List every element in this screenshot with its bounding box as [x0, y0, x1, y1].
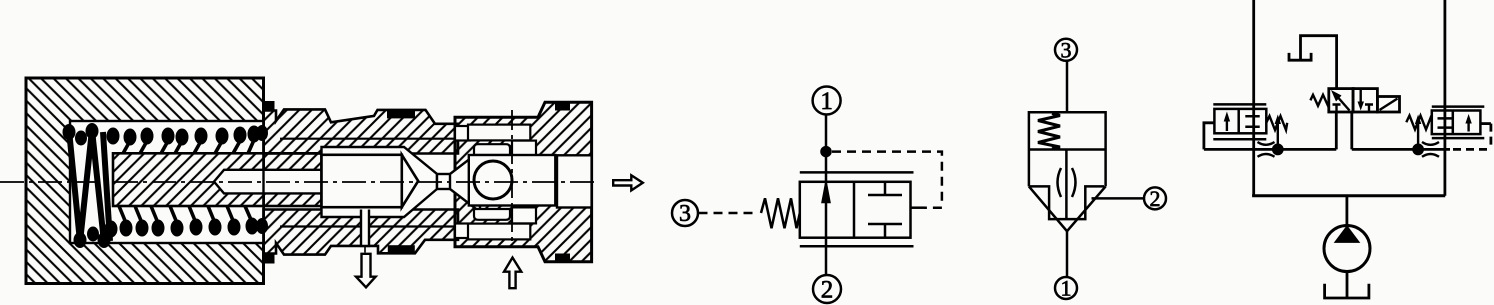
- directional valve boxes: [1329, 89, 1353, 112]
- spool (spring guide): [113, 153, 322, 206]
- sleeve bore steps: [280, 139, 458, 227]
- valve R spring: [1406, 116, 1432, 130]
- port 1 line: [1066, 231, 1069, 277]
- port 2 circle: [813, 275, 841, 303]
- port 3 circle: [672, 200, 698, 226]
- sleeve upper slab: [264, 109, 459, 153]
- port 3 line: [1066, 61, 1069, 112]
- spring wire diagonals: [119, 140, 254, 223]
- poppet chamber: [322, 147, 438, 217]
- valve L check arrow: [1226, 116, 1228, 131]
- left pilot rail wire: [1204, 148, 1336, 151]
- funnel: [1029, 186, 1106, 231]
- left bus wire: [1252, 0, 1255, 196]
- outlet fitting: [455, 102, 592, 261]
- valve R node: [1414, 145, 1423, 154]
- piston symbol: [868, 182, 902, 238]
- svg-text:2: 2: [821, 277, 834, 304]
- ball seat cone: [450, 151, 480, 212]
- valve body box: [800, 182, 911, 238]
- spool bore slot: [214, 170, 322, 194]
- poppet: [322, 155, 402, 207]
- valve L piston: [1245, 116, 1259, 127]
- port 1 line: [825, 115, 828, 275]
- valve R check arrow: [1467, 118, 1469, 132]
- port pocket bottom: [468, 224, 530, 240]
- seal rings: [262, 101, 570, 264]
- centerline main: [0, 181, 599, 183]
- divider: [1029, 148, 1106, 151]
- valve spring: [1310, 95, 1328, 106]
- pump circle: [1324, 226, 1370, 272]
- box2 blocked port: [1365, 105, 1373, 113]
- valve body block: [26, 78, 264, 284]
- drain tank: [1289, 53, 1311, 60]
- ball chamber: [469, 155, 556, 206]
- seat throat: [437, 174, 452, 189]
- svg-text:1: 1: [820, 88, 833, 115]
- cage plateau bottom: [474, 209, 510, 220]
- valve R piston: [1438, 118, 1453, 127]
- spring vertical: [1038, 114, 1060, 149]
- valve L node: [1273, 145, 1282, 154]
- port 1 circle: [813, 87, 841, 115]
- poppet center line: [1065, 150, 1068, 220]
- pump triangle: [1337, 228, 1358, 242]
- spring end coil: [69, 130, 110, 242]
- cartridge valve R box: [1432, 111, 1481, 135]
- cage plateau top: [474, 144, 510, 155]
- pump tank: [1325, 284, 1369, 298]
- sleeve lower slab: [264, 210, 459, 255]
- port pocket top: [468, 125, 530, 141]
- cartridge valve L box: [1214, 109, 1266, 133]
- port 2 circle: [1144, 187, 1166, 209]
- centerline vertical port: [511, 110, 513, 248]
- spring top coils: [63, 123, 269, 146]
- valve R pilot dashed: [1490, 124, 1493, 150]
- valve R sense arrow: [1417, 121, 1419, 149]
- valve L throttle: [1258, 142, 1275, 157]
- check arrow head: [823, 184, 830, 202]
- right bus wire: [1444, 0, 1447, 196]
- box1 arrow: [1335, 94, 1350, 111]
- valve L spring: [1266, 116, 1287, 130]
- port 3 circle: [1055, 39, 1077, 61]
- actuator box: [1377, 97, 1399, 113]
- cartridge valve L rails: [1213, 104, 1266, 139]
- fitting counterbore gaps: [455, 126, 470, 141]
- svg-text:3: 3: [679, 201, 691, 227]
- svg-text:3: 3: [1061, 38, 1072, 63]
- flow arrow right: [613, 175, 643, 190]
- drain pipe: [1301, 36, 1337, 89]
- valve R throttle: [1422, 142, 1439, 157]
- bottom bus wire: [1252, 194, 1445, 197]
- spring: [761, 198, 800, 228]
- cage tab bottom: [512, 207, 536, 223]
- pump line: [1346, 196, 1349, 226]
- pilot dashed line: [832, 152, 942, 204]
- body box: [1029, 112, 1106, 186]
- pilot stub: [911, 206, 925, 209]
- right pilot rail wire: [1352, 148, 1450, 151]
- spring cavity: [70, 121, 264, 243]
- svg-text:2: 2: [1150, 186, 1161, 211]
- outlet bore: [557, 155, 592, 207]
- svg-text:1: 1: [1061, 276, 1072, 301]
- valve R pilot stub: [1480, 122, 1491, 125]
- port 2 line: [1092, 197, 1145, 200]
- poppet stem passage: [361, 210, 369, 246]
- valve L sense arrow: [1277, 121, 1279, 149]
- throttle arcs: [1058, 168, 1076, 197]
- cell divider: [853, 182, 856, 238]
- pilot junction node: [822, 147, 831, 156]
- valve L pilot wire: [1204, 123, 1215, 150]
- ball: [474, 161, 512, 199]
- flow arrow up: [504, 258, 521, 289]
- spring bottom coils: [74, 218, 269, 249]
- port 3 dashed line: [699, 212, 759, 215]
- cartridge valve R rails: [1432, 107, 1485, 139]
- valve bottom port lines: [1336, 112, 1352, 149]
- flow arrow down: [356, 254, 376, 287]
- sleeve left face line: [262, 153, 264, 206]
- poppet cone: [402, 155, 418, 207]
- valve sleeve rails: [800, 172, 914, 246]
- box1 blocked port: [1333, 105, 1341, 113]
- pump suction line: [1346, 271, 1349, 297]
- box2 arrow: [1359, 90, 1361, 105]
- cage tab top: [512, 141, 536, 157]
- port 1 circle: [1055, 277, 1077, 299]
- inner seat: [1029, 186, 1104, 219]
